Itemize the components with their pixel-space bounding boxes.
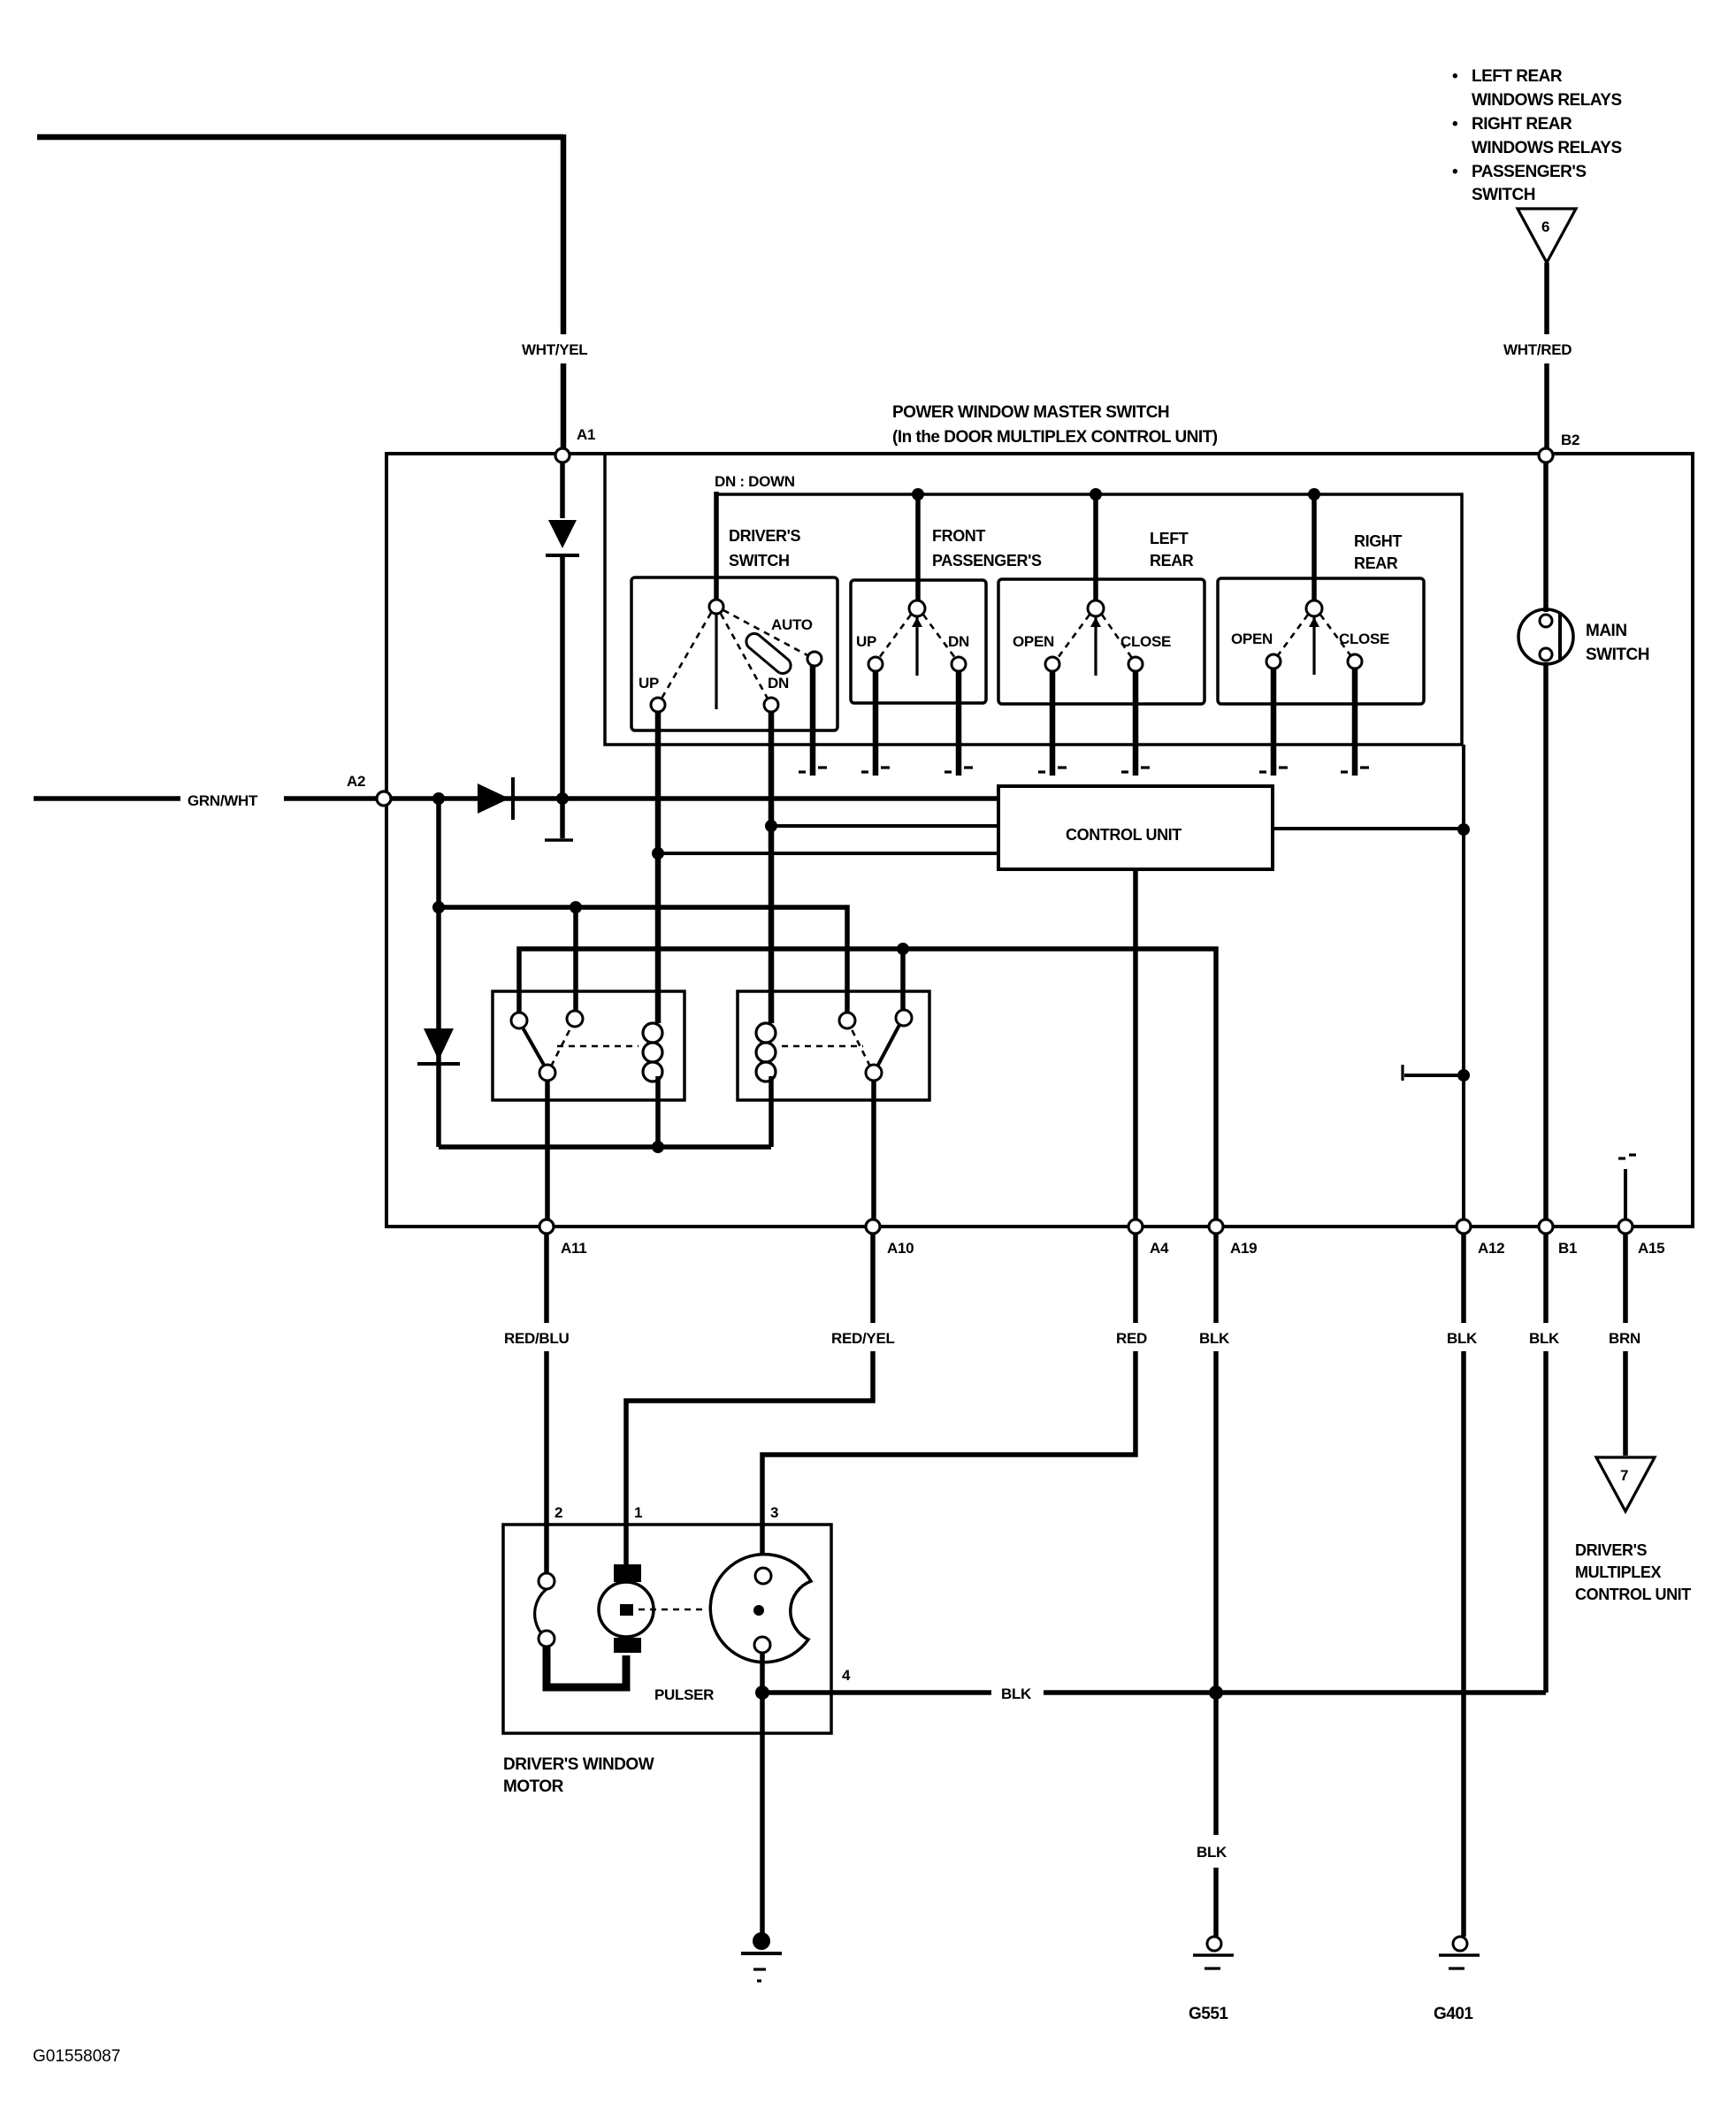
svg-text:•: • bbox=[1452, 67, 1458, 86]
LR OPEN leg bbox=[1038, 671, 1067, 776]
wire A12 to G401 (BLK) bbox=[1461, 1234, 1466, 1937]
driver's UP leg bbox=[655, 712, 662, 1023]
svg-text:SWITCH: SWITCH bbox=[729, 552, 790, 569]
wire frame to A12 bbox=[1462, 745, 1465, 1219]
wire GRN/WHT feed bbox=[34, 796, 377, 801]
LR contact OPEN bbox=[1045, 657, 1059, 671]
driver's switch blade bbox=[715, 614, 717, 709]
right rear switch box bbox=[1218, 578, 1424, 704]
svg-text:MOTOR: MOTOR bbox=[503, 1777, 564, 1796]
junction pin4 bbox=[755, 1685, 769, 1700]
svg-text:BLK: BLK bbox=[1197, 1844, 1227, 1861]
svg-text:WHT/RED: WHT/RED bbox=[1503, 341, 1572, 358]
svg-text:PULSER: PULSER bbox=[654, 1686, 714, 1703]
wire relay2 contact2 bbox=[900, 949, 906, 1010]
driver's switch box bbox=[631, 577, 837, 730]
svg-text:MULTIPLEX: MULTIPLEX bbox=[1575, 1563, 1661, 1581]
dashed to AUTO bbox=[723, 610, 807, 655]
svg-text:4: 4 bbox=[842, 1667, 851, 1684]
relay 1 box bbox=[493, 991, 684, 1100]
power window master switch outer box bbox=[386, 454, 1693, 1227]
motor brush tail wire bbox=[547, 1647, 626, 1687]
FP DN leg bbox=[944, 671, 973, 776]
diode D2 bbox=[478, 777, 513, 820]
svg-text:A11: A11 bbox=[561, 1240, 586, 1257]
RR OPEN leg bbox=[1259, 669, 1288, 776]
wire relay contacts feed bbox=[439, 907, 847, 1013]
junction RR common on frame bbox=[1308, 488, 1320, 501]
motor brush bottom contact bbox=[539, 1631, 554, 1647]
diode D1 (below A1) bbox=[546, 462, 579, 838]
left branch wire (A2 to relays) bbox=[436, 799, 441, 1147]
svg-text:A12: A12 bbox=[1478, 1240, 1504, 1257]
contact DN bbox=[764, 698, 778, 712]
junction UP leg bbox=[652, 847, 664, 860]
svg-text:WHT/YEL: WHT/YEL bbox=[522, 341, 587, 358]
svg-text:PASSENGER'S: PASSENGER'S bbox=[932, 552, 1042, 569]
ground G551 bbox=[1189, 1937, 1234, 2023]
svg-text:OPEN: OPEN bbox=[1013, 633, 1054, 650]
svg-text:LEFT: LEFT bbox=[1150, 530, 1189, 547]
control unit box bbox=[998, 786, 1273, 869]
svg-text:POWER WINDOW MASTER SWITCH: POWER WINDOW MASTER SWITCH bbox=[892, 403, 1169, 422]
capacitor tick end below D1 bbox=[545, 838, 573, 842]
svg-text:6: 6 bbox=[1541, 218, 1549, 235]
relay1 common tail to A11 bbox=[545, 1081, 550, 1219]
dashed to UP bbox=[662, 613, 711, 699]
junction A1 branch on A2 wire bbox=[556, 792, 569, 805]
connector triangle 7 bbox=[1596, 1457, 1655, 1511]
svg-text:WINDOWS RELAYS: WINDOWS RELAYS bbox=[1472, 91, 1622, 110]
svg-text:3: 3 bbox=[770, 1504, 778, 1521]
svg-text:UP: UP bbox=[856, 633, 876, 650]
driver's window motor box bbox=[503, 1525, 831, 1733]
pulser disc bbox=[710, 1555, 811, 1663]
junction FP common on frame bbox=[912, 488, 924, 501]
svg-text:BLK: BLK bbox=[1529, 1330, 1560, 1347]
node A4 bbox=[1128, 1219, 1169, 1257]
FP blade arrow bbox=[912, 617, 922, 627]
RR contact OPEN bbox=[1266, 654, 1281, 669]
svg-text:SWITCH: SWITCH bbox=[1472, 186, 1535, 204]
RR dashed to OPEN bbox=[1278, 615, 1308, 655]
motor brush arc bbox=[535, 1589, 547, 1639]
label MAIN SWITCH bbox=[1586, 622, 1649, 664]
relay2 link dashed bbox=[782, 1045, 863, 1048]
wire A2 to control unit bbox=[391, 796, 998, 801]
wire A4 to pulser pin3 (RED) bbox=[762, 1234, 1136, 1568]
wire A10 to motor pin1 (RED/YEL) bbox=[626, 1234, 873, 1564]
dashed to DN bbox=[721, 614, 768, 699]
relay1 blade bbox=[523, 1028, 545, 1066]
relay1 common contact bbox=[539, 1065, 555, 1081]
main switch bbox=[1518, 462, 1573, 1219]
svg-text:A4: A4 bbox=[1150, 1240, 1169, 1257]
LR dashed to OPEN bbox=[1058, 615, 1090, 658]
RR blade bbox=[1312, 616, 1315, 675]
motor M1 bbox=[599, 1564, 654, 1653]
FP UP leg bbox=[861, 671, 890, 776]
RR dashed to CLOSE bbox=[1320, 615, 1350, 655]
stub connector near A12 wire bbox=[1403, 1065, 1470, 1082]
relay1 contact 2 bbox=[567, 1011, 583, 1027]
svg-text:BLK: BLK bbox=[1447, 1330, 1478, 1347]
label RIGHT REAR bbox=[1354, 532, 1402, 572]
relay2 coil bbox=[756, 991, 776, 1147]
node A11 bbox=[539, 1219, 586, 1257]
FP dashed to DN bbox=[923, 615, 955, 658]
svg-text:DRIVER'S WINDOW: DRIVER'S WINDOW bbox=[503, 1755, 654, 1774]
motor brush top contact bbox=[539, 1573, 554, 1589]
svg-text:UP: UP bbox=[639, 675, 659, 692]
wire pin 4 (BLK) bbox=[762, 1690, 1546, 1695]
LR blade arrow bbox=[1090, 617, 1101, 627]
junction relay1 contact2 bbox=[570, 901, 582, 913]
junction coil1 bottom bbox=[652, 1141, 664, 1153]
RR blade arrow bbox=[1309, 617, 1319, 627]
svg-text:LEFT REAR: LEFT REAR bbox=[1472, 67, 1563, 86]
svg-text:2: 2 bbox=[554, 1504, 562, 1521]
contact UP bbox=[651, 698, 665, 712]
svg-text:1: 1 bbox=[634, 1504, 642, 1521]
svg-text:•: • bbox=[1452, 163, 1458, 181]
LR common contact bbox=[1088, 600, 1104, 616]
junction DN leg bbox=[765, 820, 777, 832]
front passenger's switch box bbox=[851, 580, 986, 703]
wire A19 to G551 (BLK) bbox=[1213, 1234, 1219, 1937]
RR common contact bbox=[1306, 600, 1322, 616]
relay2 dashed blade bbox=[851, 1028, 870, 1066]
LR contact CLOSE bbox=[1128, 657, 1143, 671]
wire coil bottoms link bbox=[439, 1144, 771, 1150]
wire relay1 contact2 bbox=[573, 907, 578, 1012]
connector triangle 6 bbox=[1518, 209, 1576, 263]
junction on A2 wire bbox=[432, 792, 445, 805]
svg-text:AUTO: AUTO bbox=[771, 616, 813, 633]
svg-text:RED/BLU: RED/BLU bbox=[504, 1330, 569, 1347]
driver's DN leg bbox=[769, 712, 775, 1023]
FP common contact bbox=[909, 600, 925, 616]
svg-text:G401: G401 bbox=[1434, 2005, 1473, 2023]
svg-text:FRONT: FRONT bbox=[932, 527, 985, 545]
svg-text:A15: A15 bbox=[1638, 1240, 1664, 1257]
svg-text:G551: G551 bbox=[1189, 2005, 1228, 2023]
AUTO paddle bbox=[743, 631, 794, 676]
driver's switch common contact bbox=[709, 600, 723, 614]
junction A19/pin4 bbox=[1209, 1685, 1223, 1700]
control unit output wire bbox=[1273, 827, 1464, 830]
wire B1 down (BLK) bbox=[1543, 1234, 1549, 1693]
wire A11 to motor (RED/BLU) bbox=[544, 1234, 549, 1574]
wire A15 to connector 7 (BRN) bbox=[1623, 1234, 1628, 1456]
wire UP leg to control unit bbox=[658, 852, 998, 855]
relay2 common tail to A10 bbox=[871, 1081, 876, 1219]
junction output bbox=[1457, 823, 1470, 836]
RR contact CLOSE bbox=[1348, 654, 1362, 669]
svg-text:A2: A2 bbox=[347, 773, 365, 790]
node B1 bbox=[1539, 1219, 1577, 1257]
FP contact DN bbox=[952, 657, 966, 671]
svg-text:DRIVER'S: DRIVER'S bbox=[729, 527, 800, 545]
relay 2 box bbox=[738, 991, 929, 1100]
svg-text:CLOSE: CLOSE bbox=[1339, 631, 1389, 647]
title POWER WINDOW MASTER SWITCH bbox=[892, 403, 1218, 447]
driver's switch common wire bbox=[714, 492, 719, 600]
svg-text:G01558087: G01558087 bbox=[33, 2047, 120, 2066]
LR CLOSE leg bbox=[1121, 671, 1150, 776]
svg-text:DRIVER'S: DRIVER'S bbox=[1575, 1541, 1647, 1559]
svg-text:RIGHT: RIGHT bbox=[1354, 532, 1402, 550]
svg-text:DN: DN bbox=[948, 633, 969, 650]
relay2 contact 2 bbox=[896, 1010, 912, 1026]
svg-text:CLOSE: CLOSE bbox=[1120, 633, 1171, 650]
svg-text:CONTROL UNIT: CONTROL UNIT bbox=[1066, 826, 1182, 844]
svg-text:RED: RED bbox=[1116, 1330, 1147, 1347]
label DRIVER'S WINDOW MOTOR bbox=[503, 1755, 654, 1796]
wire WHT/RED bbox=[1544, 263, 1549, 448]
svg-text:RIGHT REAR: RIGHT REAR bbox=[1472, 115, 1572, 134]
node A19 bbox=[1209, 1219, 1257, 1257]
svg-text:CONTROL UNIT: CONTROL UNIT bbox=[1575, 1586, 1691, 1603]
svg-text:A10: A10 bbox=[887, 1240, 914, 1257]
diode D3 bbox=[417, 1028, 460, 1064]
wire WHT/YEL feed (top left) bbox=[37, 134, 563, 448]
label LEFT REAR bbox=[1150, 530, 1194, 569]
svg-text:GRN/WHT: GRN/WHT bbox=[187, 792, 258, 809]
A15 stub above bbox=[1618, 1155, 1636, 1219]
svg-text:REAR: REAR bbox=[1150, 552, 1194, 569]
FP dashed to UP bbox=[879, 615, 911, 658]
node A12 bbox=[1457, 1219, 1504, 1257]
label FRONT PASSENGER'S bbox=[932, 527, 1042, 569]
relay1 link dashed bbox=[557, 1045, 639, 1048]
svg-text:OPEN: OPEN bbox=[1231, 631, 1273, 647]
svg-text:DN : DOWN: DN : DOWN bbox=[715, 473, 795, 490]
relay1 coil bbox=[643, 991, 662, 1147]
svg-text:B2: B2 bbox=[1561, 432, 1579, 448]
driver's AUTO leg bbox=[799, 666, 827, 776]
svg-text:WINDOWS RELAYS: WINDOWS RELAYS bbox=[1472, 139, 1622, 157]
FP blade bbox=[915, 616, 918, 676]
svg-text:DN: DN bbox=[768, 675, 789, 692]
relay2 common contact bbox=[866, 1065, 882, 1081]
relay1 contact 1 bbox=[511, 1013, 527, 1028]
pulser ground bbox=[741, 1932, 782, 1981]
FP common wire bbox=[915, 494, 921, 601]
relay1 dashed blade bbox=[551, 1027, 571, 1066]
RR common wire bbox=[1312, 494, 1317, 601]
node A2 bbox=[347, 773, 391, 806]
LR dashed to CLOSE bbox=[1102, 615, 1132, 658]
junction relay2 contact2 bbox=[897, 943, 909, 955]
svg-text:REAR: REAR bbox=[1354, 554, 1398, 572]
svg-text:BRN: BRN bbox=[1609, 1330, 1640, 1347]
RR CLOSE leg bbox=[1341, 669, 1369, 776]
label DRIVER'S MULTIPLEX CONTROL UNIT bbox=[1575, 1541, 1691, 1603]
svg-text:PASSENGER'S: PASSENGER'S bbox=[1472, 163, 1587, 181]
svg-text:BLK: BLK bbox=[1001, 1685, 1032, 1702]
wire DN leg to control unit bbox=[771, 824, 998, 828]
svg-text:B1: B1 bbox=[1558, 1240, 1577, 1257]
LR common wire bbox=[1093, 494, 1098, 601]
svg-text:(In the DOOR MULTIPLEX CONTROL: (In the DOOR MULTIPLEX CONTROL UNIT) bbox=[892, 428, 1218, 447]
switch assembly inner frame bbox=[605, 455, 1462, 745]
junction LR common on frame bbox=[1090, 488, 1102, 501]
bullet list: left rear / right rear windows relays, passenger's switch bbox=[1452, 67, 1622, 204]
dashed link motor to pulser bbox=[639, 1609, 702, 1611]
left rear switch box bbox=[998, 579, 1204, 704]
pulser bottom wire bbox=[760, 1653, 765, 1935]
svg-text:•: • bbox=[1452, 115, 1458, 134]
ground G401 bbox=[1434, 1937, 1480, 2023]
node A15 bbox=[1618, 1219, 1664, 1257]
LR blade bbox=[1094, 616, 1097, 676]
control unit bottom wire to A4 bbox=[1133, 869, 1138, 1219]
contact AUTO bbox=[807, 652, 822, 666]
label DRIVER'S SWITCH bbox=[729, 527, 800, 569]
FP contact UP bbox=[868, 657, 883, 671]
svg-text:A19: A19 bbox=[1230, 1240, 1257, 1257]
relay2 blade bbox=[877, 1025, 899, 1066]
svg-text:RED/YEL: RED/YEL bbox=[831, 1330, 895, 1347]
svg-text:SWITCH: SWITCH bbox=[1586, 646, 1649, 664]
svg-text:7: 7 bbox=[1620, 1467, 1628, 1484]
svg-text:MAIN: MAIN bbox=[1586, 622, 1627, 640]
wire relay1 contact1 to A19 bbox=[519, 949, 1216, 1219]
node B2 bbox=[1539, 432, 1579, 462]
node A1 bbox=[555, 426, 595, 462]
node A10 bbox=[866, 1219, 914, 1257]
svg-text:A1: A1 bbox=[577, 426, 595, 443]
svg-text:BLK: BLK bbox=[1199, 1330, 1230, 1347]
relay2 contact 1 bbox=[839, 1013, 855, 1028]
junction relay feed bbox=[432, 901, 445, 913]
